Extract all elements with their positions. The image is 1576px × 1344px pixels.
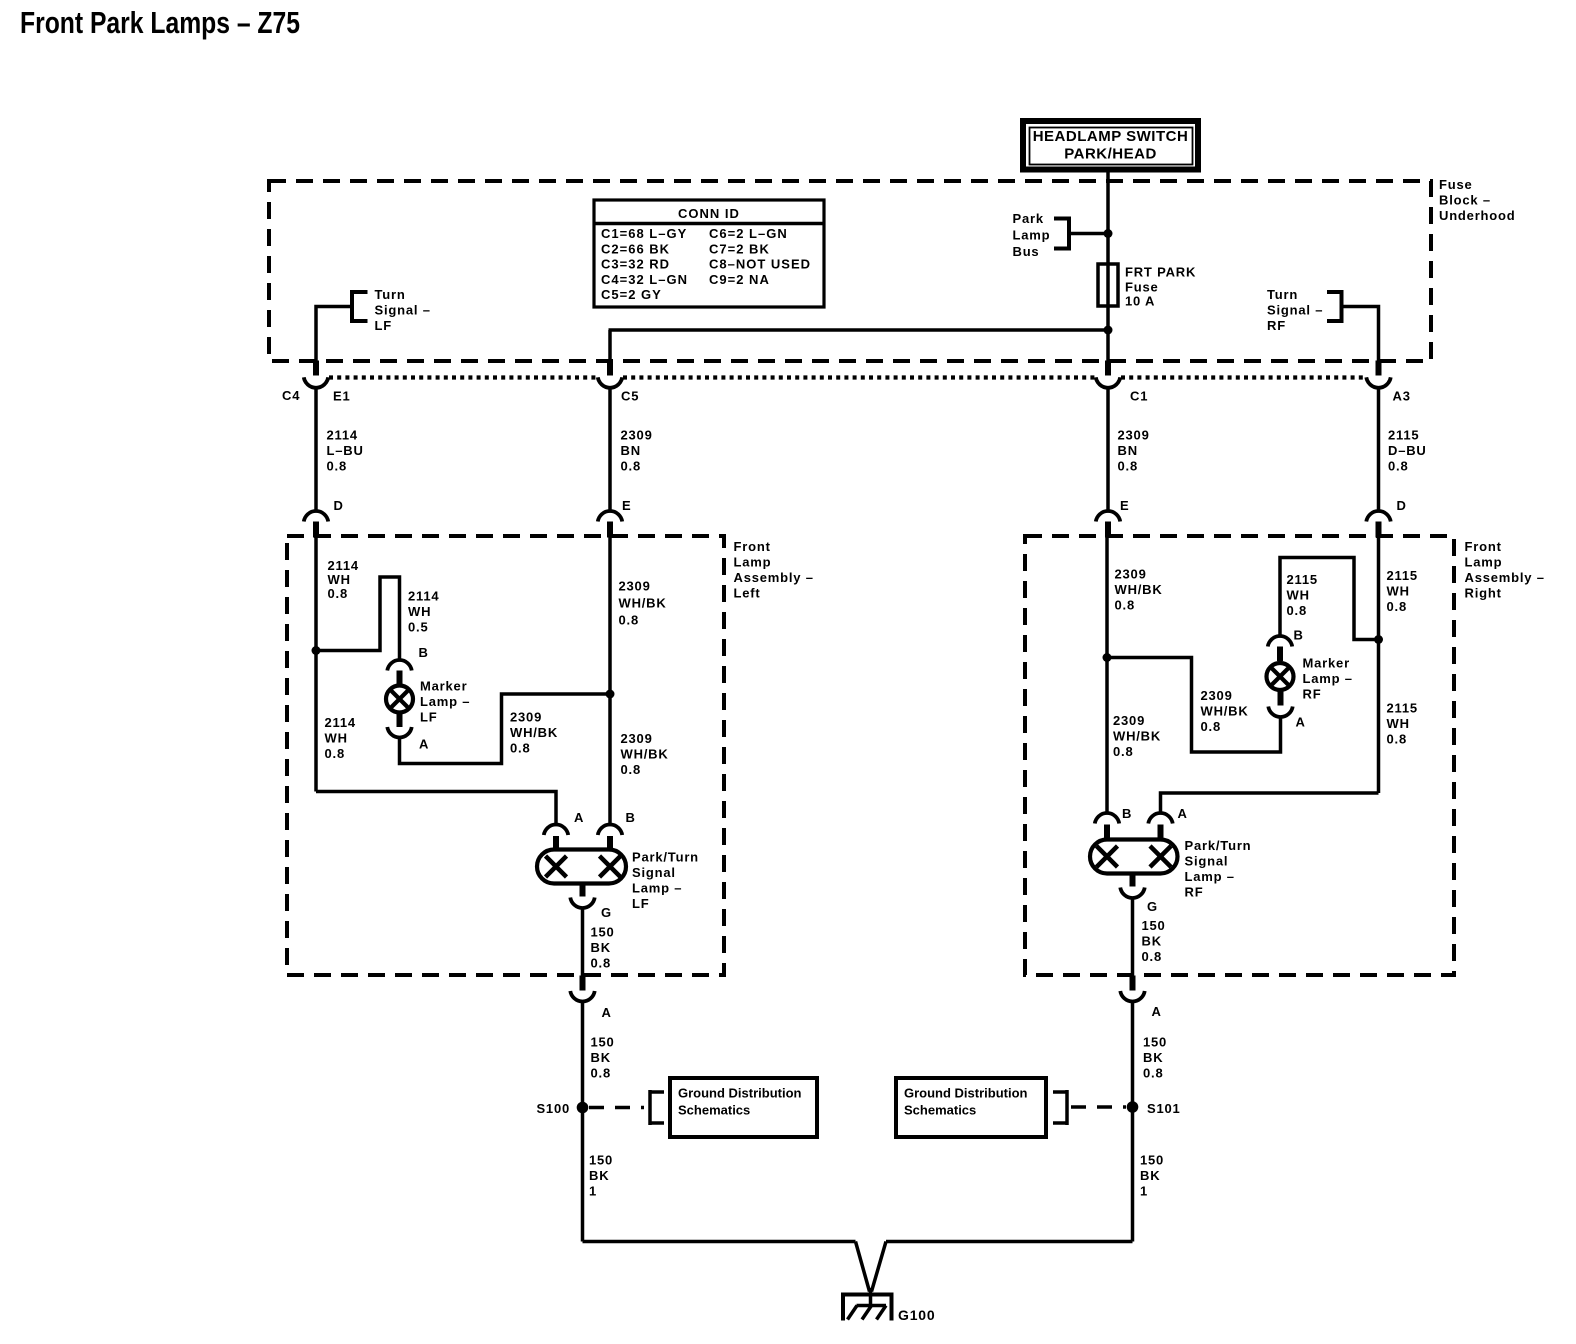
wire bottom right to ground [886, 1240, 1133, 1244]
connector B marker lamp LF [387, 660, 411, 671]
ground G100 [869, 1288, 873, 1306]
svg-text:C3=32 RD: C3=32 RD [601, 257, 670, 272]
splice S100 [577, 1102, 589, 1114]
svg-text:150: 150 [591, 1035, 615, 1050]
connector A marker lamp LF [397, 713, 403, 728]
svg-text:Turn: Turn [375, 287, 406, 302]
svg-text:B: B [419, 645, 429, 660]
svg-text:2309: 2309 [619, 579, 651, 594]
svg-text:2115: 2115 [1387, 568, 1418, 583]
svg-text:C4=32 L–GN: C4=32 L–GN [601, 272, 688, 287]
wire bus to C5 [609, 328, 1109, 332]
svg-text:Turn: Turn [1267, 287, 1298, 302]
svg-text:E1: E1 [333, 389, 351, 404]
wire turn signal RF to A3 [1342, 307, 1379, 362]
svg-text:2309: 2309 [510, 710, 542, 725]
svg-text:Lamp –: Lamp – [1303, 671, 1353, 686]
svg-text:0.8: 0.8 [621, 459, 641, 474]
svg-text:C7=2 BK: C7=2 BK [709, 241, 770, 256]
front lamp assembly left dashed box [287, 536, 724, 975]
svg-text:1: 1 [1140, 1184, 1148, 1199]
svg-text:FRT PARK: FRT PARK [1125, 265, 1196, 280]
wire 150 BK 0.8 left inside [581, 907, 585, 976]
svg-text:2309: 2309 [1201, 688, 1233, 703]
connector A park/turn LF [544, 825, 568, 836]
svg-text:Bus: Bus [1013, 244, 1040, 259]
marker lamp LF [386, 686, 413, 713]
svg-text:WH: WH [1387, 584, 1410, 599]
connector D lamp assembly [304, 511, 328, 522]
svg-text:Signal –: Signal – [1267, 303, 1323, 318]
svg-text:Lamp: Lamp [1013, 228, 1051, 243]
svg-text:C9=2 NA: C9=2 NA [709, 272, 770, 287]
svg-text:0.5: 0.5 [408, 620, 428, 635]
connector G park/turn LF [580, 884, 586, 897]
harness dotted line [329, 375, 597, 379]
ground distribution schematics box right [896, 1078, 1046, 1137]
svg-text:0.8: 0.8 [1113, 744, 1133, 759]
svg-text:2309: 2309 [621, 731, 653, 746]
wire 2309 BN 0.8 left [608, 387, 612, 511]
svg-text:BK: BK [1140, 1168, 1160, 1183]
wire to park/turn A left [316, 792, 556, 825]
svg-text:2309: 2309 [1118, 428, 1150, 443]
svg-text:WH: WH [328, 572, 351, 587]
svg-text:Assembly –: Assembly – [1465, 570, 1545, 585]
svg-text:2114: 2114 [408, 589, 439, 604]
svg-text:E: E [622, 498, 631, 513]
svg-text:B: B [1294, 628, 1304, 643]
svg-text:2115: 2115 [1287, 572, 1318, 587]
connector A3 [1376, 361, 1382, 376]
svg-text:G: G [601, 905, 612, 920]
svg-text:C5=2 GY: C5=2 GY [601, 287, 662, 302]
svg-text:0.8: 0.8 [325, 746, 345, 761]
svg-text:0.8: 0.8 [1118, 459, 1138, 474]
wire 2115 WH 0.8 right main [1377, 538, 1381, 794]
connector A marker lamp RF [1268, 707, 1292, 718]
svg-text:0.8: 0.8 [1387, 732, 1407, 747]
svg-text:WH: WH [325, 731, 348, 746]
connector E1 [313, 361, 319, 376]
svg-text:Fuse: Fuse [1439, 177, 1473, 192]
svg-text:G100: G100 [898, 1307, 935, 1323]
wire marker branch left [316, 577, 400, 660]
bracket ground ref left [648, 1090, 652, 1125]
svg-text:C5: C5 [621, 389, 639, 404]
svg-text:0.8: 0.8 [1142, 949, 1162, 964]
bracket ground ref right [1065, 1090, 1069, 1125]
svg-text:Lamp –: Lamp – [420, 694, 470, 709]
wire park lamp bus [1069, 232, 1108, 236]
svg-text:150: 150 [1142, 918, 1166, 933]
svg-text:0.8: 0.8 [1388, 459, 1408, 474]
svg-text:Schematics: Schematics [904, 1103, 976, 1118]
svg-text:Signal: Signal [632, 865, 676, 880]
junction marker branch left [312, 646, 321, 655]
svg-text:0.8: 0.8 [621, 762, 641, 777]
svg-text:RF: RF [1303, 687, 1322, 702]
svg-text:150: 150 [1140, 1153, 1164, 1168]
svg-text:2309: 2309 [1115, 567, 1147, 582]
svg-text:C1: C1 [1130, 389, 1148, 404]
junction E drop left [606, 690, 615, 699]
svg-text:S101: S101 [1147, 1101, 1181, 1116]
junction right E drop [1103, 653, 1112, 662]
connector C1 [1105, 361, 1111, 376]
connector A left exit [580, 976, 586, 991]
svg-text:2114: 2114 [325, 715, 356, 730]
svg-text:150: 150 [1143, 1035, 1167, 1050]
svg-text:WH: WH [1387, 716, 1410, 731]
svg-text:WH/BK: WH/BK [1115, 582, 1163, 597]
park lamp bus bracket [1067, 217, 1071, 251]
svg-text:A: A [1178, 806, 1188, 821]
svg-text:WH: WH [408, 604, 431, 619]
wire 150 BK 0.8 to S101 [1131, 1001, 1135, 1242]
svg-text:Ground Distribution: Ground Distribution [904, 1086, 1028, 1101]
svg-text:G: G [1147, 899, 1158, 914]
connector D lamp assembly [1366, 511, 1390, 522]
wire bottom left to ground [583, 1240, 856, 1244]
svg-text:Block –: Block – [1439, 193, 1491, 208]
wire turn signal LF to C4 [316, 307, 352, 362]
svg-text:CONN ID: CONN ID [678, 206, 740, 221]
svg-text:Ground Distribution: Ground Distribution [678, 1086, 802, 1101]
svg-text:Signal: Signal [1185, 854, 1229, 869]
svg-text:WH/BK: WH/BK [1201, 704, 1249, 719]
wire 2309 BN 0.8 right [1106, 387, 1110, 511]
wire marker A to splice-junction left [400, 694, 611, 764]
svg-text:LF: LF [420, 710, 437, 725]
svg-text:Marker: Marker [1303, 656, 1350, 671]
park/turn signal lamp LF [537, 850, 626, 884]
svg-text:Lamp: Lamp [1465, 555, 1503, 570]
svg-text:A: A [1152, 1004, 1162, 1019]
connector B park/turn LF [598, 825, 622, 836]
connector A park/turn RF [1148, 813, 1172, 824]
dashed ref wire S101 [1071, 1105, 1126, 1109]
svg-text:BN: BN [621, 443, 641, 458]
junction park lamp bus [1104, 229, 1113, 238]
svg-text:Schematics: Schematics [678, 1103, 750, 1118]
svg-text:BK: BK [591, 940, 611, 955]
turn signal LF bracket [350, 290, 354, 323]
svg-text:Right: Right [1465, 586, 1502, 601]
svg-text:B: B [1122, 806, 1132, 821]
wire main to park/turn A right [1161, 793, 1379, 814]
svg-text:E: E [1120, 498, 1129, 513]
svg-text:RF: RF [1267, 318, 1286, 333]
svg-text:0.8: 0.8 [619, 613, 639, 628]
svg-text:C6=2 L–GN: C6=2 L–GN [709, 226, 788, 241]
svg-text:2114: 2114 [328, 558, 359, 573]
svg-text:D–BU: D–BU [1388, 443, 1427, 458]
svg-text:BK: BK [1143, 1050, 1163, 1065]
splice S101 [1127, 1101, 1139, 1113]
wire 2114 WH 0.8 left main [314, 538, 318, 792]
connector B park/turn RF [1095, 813, 1119, 824]
svg-text:Underhood: Underhood [1439, 208, 1516, 223]
wire 2309 WH/BK 0.8 left E drop [608, 538, 612, 825]
svg-text:2309: 2309 [1113, 713, 1145, 728]
svg-text:C4: C4 [282, 388, 300, 403]
junction below fuse [1104, 326, 1113, 335]
svg-text:150: 150 [589, 1153, 613, 1168]
marker lamp RF [1267, 663, 1294, 690]
svg-text:Lamp –: Lamp – [1185, 869, 1235, 884]
svg-text:WH/BK: WH/BK [621, 747, 669, 762]
junction right main [1374, 635, 1383, 644]
svg-text:Lamp: Lamp [734, 555, 772, 570]
svg-text:PARK/HEAD: PARK/HEAD [1064, 146, 1157, 163]
svg-text:HEADLAMP SWITCH: HEADLAMP SWITCH [1033, 128, 1189, 145]
svg-text:0.8: 0.8 [510, 741, 530, 756]
dashed ref wire S100 [589, 1106, 644, 1110]
connector G park/turn RF [1130, 874, 1136, 887]
wire 2114 L-BU 0.8 [314, 387, 318, 511]
svg-text:D: D [1397, 498, 1407, 513]
connector A right exit [1130, 976, 1136, 991]
svg-text:C8–NOT USED: C8–NOT USED [709, 257, 811, 272]
connector C5 [607, 361, 613, 376]
fuse F FRT PARK 10A [1098, 264, 1118, 306]
wire 2309 WH/BK 0.8 right E drop [1105, 538, 1109, 814]
wire 150 BK 0.8 to S100 [581, 1001, 585, 1242]
wire headlamp switch to fuse [1106, 172, 1110, 362]
svg-text:0.8: 0.8 [591, 956, 611, 971]
svg-text:Assembly –: Assembly – [734, 570, 814, 585]
svg-text:1: 1 [589, 1184, 597, 1199]
wire marker B to main right [1280, 558, 1379, 640]
svg-text:BK: BK [591, 1050, 611, 1065]
svg-text:0.8: 0.8 [1115, 598, 1135, 613]
headlamp switch box [1023, 121, 1198, 170]
svg-text:0.8: 0.8 [328, 586, 348, 601]
svg-text:BN: BN [1118, 443, 1138, 458]
svg-text:S100: S100 [536, 1101, 570, 1116]
park/turn signal lamp RF [1090, 840, 1178, 874]
svg-text:Park: Park [1013, 211, 1044, 226]
svg-text:0.8: 0.8 [1287, 603, 1307, 618]
svg-text:L–BU: L–BU [327, 443, 364, 458]
wire V right diagonal [872, 1242, 887, 1292]
svg-text:0.8: 0.8 [591, 1066, 611, 1081]
wire V left diagonal [856, 1242, 870, 1292]
svg-text:D: D [334, 498, 344, 513]
svg-text:10 A: 10 A [1125, 294, 1155, 309]
svg-text:A: A [1296, 715, 1306, 730]
svg-text:150: 150 [591, 925, 615, 940]
svg-text:Front: Front [1465, 539, 1502, 554]
svg-text:BK: BK [1142, 934, 1162, 949]
ground distribution schematics box left [670, 1078, 817, 1137]
svg-text:Signal –: Signal – [375, 303, 431, 318]
connector E lamp assembly [598, 511, 622, 522]
fuse block underhood dashed box [269, 181, 1431, 361]
svg-text:0.8: 0.8 [327, 459, 347, 474]
svg-text:Park/Turn: Park/Turn [632, 850, 699, 865]
connector E lamp assembly [1096, 511, 1120, 522]
svg-text:0.8: 0.8 [1201, 719, 1221, 734]
svg-text:Park/Turn: Park/Turn [1185, 838, 1252, 853]
CONN ID table [594, 200, 824, 307]
svg-text:A: A [574, 810, 584, 825]
svg-text:C1=68 L–GY: C1=68 L–GY [601, 226, 687, 241]
svg-text:Front: Front [734, 539, 771, 554]
svg-text:Lamp –: Lamp – [632, 881, 682, 896]
turn signal RF bracket [1340, 290, 1344, 323]
svg-text:WH: WH [1287, 588, 1310, 603]
svg-text:0.8: 0.8 [1143, 1066, 1163, 1081]
wire 150 BK 0.8 right inside [1131, 897, 1135, 976]
svg-text:LF: LF [632, 896, 649, 911]
svg-text:2114: 2114 [327, 428, 358, 443]
front lamp assembly right dashed box [1025, 536, 1454, 975]
svg-text:Left: Left [734, 586, 761, 601]
svg-text:WH/BK: WH/BK [1113, 729, 1161, 744]
svg-text:A: A [602, 1005, 612, 1020]
svg-text:0.8: 0.8 [1387, 599, 1407, 614]
svg-text:BK: BK [589, 1168, 609, 1183]
svg-text:A: A [419, 737, 429, 752]
svg-text:2115: 2115 [1387, 701, 1418, 716]
svg-text:Marker: Marker [420, 679, 467, 694]
svg-text:LF: LF [375, 318, 392, 333]
svg-text:WH/BK: WH/BK [510, 725, 558, 740]
svg-text:RF: RF [1185, 885, 1204, 900]
svg-text:WH/BK: WH/BK [619, 596, 667, 611]
svg-text:2309: 2309 [621, 428, 653, 443]
svg-text:Fuse: Fuse [1125, 280, 1159, 295]
svg-text:C2=66 BK: C2=66 BK [601, 241, 670, 256]
wire step to marker A right [1107, 658, 1281, 753]
svg-text:2115: 2115 [1388, 428, 1419, 443]
connector B marker lamp RF [1277, 647, 1283, 662]
svg-text:B: B [626, 810, 636, 825]
wire 2115 D-BU 0.8 [1377, 387, 1381, 511]
svg-text:Front Park Lamps – Z75: Front Park Lamps – Z75 [20, 5, 300, 40]
svg-text:A3: A3 [1393, 389, 1411, 404]
